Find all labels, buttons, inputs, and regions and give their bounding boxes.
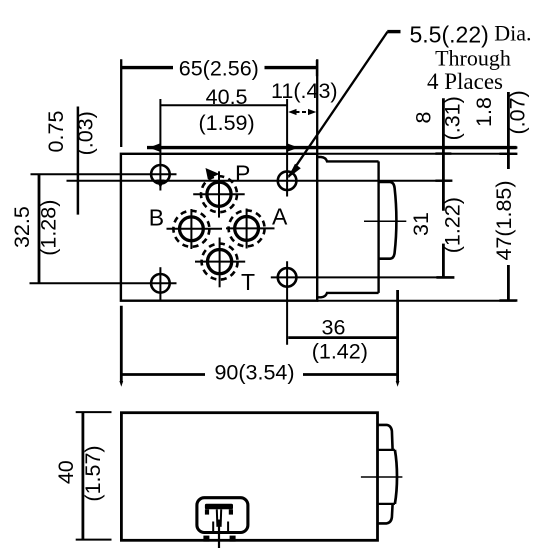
svg-text:T: T: [241, 269, 255, 295]
nut centerline (top view): [364, 220, 406, 222]
svg-text:40: 40: [54, 460, 78, 484]
port A counterbore dashed: [229, 210, 265, 246]
port A crosshair: [226, 227, 275, 229]
dimension 36 (1.42): [288, 336, 397, 339]
arrowhead below top-left mounting hole: [156, 180, 164, 189]
connector feet: [203, 536, 209, 542]
port B circle: [180, 217, 204, 241]
solenoid tube top edge (top view): [317, 157, 378, 161]
svg-text:P: P: [235, 161, 250, 187]
valve body outline (top view): [121, 154, 317, 301]
port P circle: [207, 182, 231, 206]
connector center pin line: [218, 520, 220, 549]
port P crosshair: [193, 193, 245, 195]
leader line for 5.5 dia note: [289, 32, 388, 177]
svg-text:47(1.85): 47(1.85): [492, 180, 516, 260]
hole column line left lower: [159, 267, 161, 299]
svg-text:A: A: [272, 204, 288, 230]
svg-text:4 Places: 4 Places: [427, 69, 503, 94]
svg-text:(.07): (.07): [505, 90, 529, 134]
port T circle: [208, 250, 232, 274]
nut centerline (bottom view): [361, 476, 403, 478]
bottom edge extension line: [317, 300, 516, 302]
svg-text:1.8: 1.8: [472, 97, 496, 127]
hole centerline top-left: [31, 173, 177, 175]
svg-text:B: B: [149, 204, 164, 230]
solenoid tube bottom edge: [317, 293, 378, 297]
svg-text:36: 36: [322, 316, 346, 340]
svg-text:(1.59): (1.59): [199, 111, 255, 135]
arrow marker near port P: [206, 168, 220, 179]
mounting hole top-left: [151, 165, 170, 184]
svg-text:31: 31: [409, 212, 433, 236]
port A circle: [235, 217, 259, 241]
top edge extension line (thin): [317, 153, 516, 155]
port T crosshair: [195, 261, 245, 263]
connector T bar: [205, 504, 233, 510]
dimension 1.8 / 47 line: [507, 92, 510, 169]
hole centerline bottom-right: [271, 276, 451, 278]
port B counterbore dashed: [173, 211, 209, 247]
hole column line right lower: [286, 261, 288, 345]
svg-text:(1.42): (1.42): [312, 340, 368, 364]
thick top edge line: [147, 146, 517, 149]
svg-text:Through: Through: [435, 46, 511, 71]
dimension 0.75 (.03) line: [77, 107, 80, 215]
svg-text:90(3.54): 90(3.54): [214, 361, 294, 385]
solenoid tube right edge: [377, 161, 379, 293]
mounting hole bottom-left: [151, 274, 170, 293]
svg-text:(1.57): (1.57): [81, 445, 105, 501]
svg-text:8: 8: [412, 111, 436, 123]
svg-text:11(.43): 11(.43): [271, 79, 338, 103]
valve body outline (bottom view): [121, 413, 377, 541]
dimension 90(3.54): [121, 373, 205, 376]
svg-text:65(2.56): 65(2.56): [179, 56, 259, 80]
connector housing (bottom view): [197, 498, 248, 533]
svg-text:0.75: 0.75: [44, 111, 68, 153]
solenoid nut (bottom view): [378, 425, 393, 450]
hole column line right upper: [286, 99, 288, 197]
hole centerline bottom-left: [30, 282, 177, 284]
mounting hole bottom-right: [278, 268, 297, 287]
svg-text:(1.28): (1.28): [36, 200, 60, 256]
40.5 arrowheads on thick line: [149, 143, 160, 151]
dimension 32.5 (1.28) line: [38, 174, 41, 283]
port P counterbore dashed: [201, 176, 237, 212]
svg-text:(.03): (.03): [74, 111, 98, 155]
port T counterbore dashed: [202, 244, 238, 280]
solenoid nut (top view): [379, 182, 397, 259]
dimension 8 / 31 line: [442, 98, 445, 211]
dimension 65(2.56): [121, 66, 173, 69]
dimension 40 (1.57): [82, 412, 85, 539]
connector stem outline: [216, 509, 219, 527]
dimension 40.5 (1.59): [160, 104, 287, 106]
dimension 11(.43): [296, 111, 310, 113]
hole centerline top-right: [67, 180, 451, 182]
svg-text:(1.22): (1.22): [440, 197, 464, 253]
svg-text:40.5: 40.5: [206, 85, 248, 109]
hole column line left upper: [159, 99, 161, 191]
mounting hole top-right: [278, 171, 297, 190]
svg-text:(.31): (.31): [441, 96, 465, 140]
svg-text:5.5(.22) Dia.: 5.5(.22) Dia.: [410, 21, 532, 48]
port B crosshair: [167, 228, 223, 230]
connector pin sockets: [212, 522, 214, 532]
svg-text:32.5: 32.5: [10, 206, 34, 248]
